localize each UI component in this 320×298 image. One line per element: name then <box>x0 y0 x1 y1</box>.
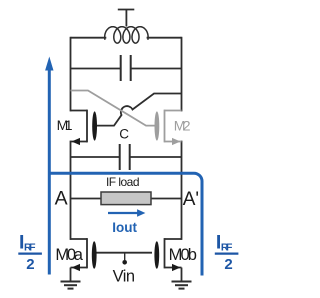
svg-text:Vin: Vin <box>113 268 136 286</box>
svg-text:RF: RF <box>221 242 233 254</box>
svg-text:IF load: IF load <box>106 175 140 189</box>
svg-text:C: C <box>119 127 129 142</box>
svg-text:M0b: M0b <box>169 246 197 264</box>
svg-text:2: 2 <box>26 256 34 273</box>
svg-text:Iout: Iout <box>112 220 137 235</box>
svg-text:M0a: M0a <box>55 246 83 264</box>
svg-text:A: A <box>55 188 68 210</box>
svg-text:M1: M1 <box>57 117 73 133</box>
svg-text:M2: M2 <box>174 118 191 134</box>
svg-text:RF: RF <box>24 242 36 254</box>
svg-text:2: 2 <box>224 256 232 273</box>
svg-text:A': A' <box>183 189 199 210</box>
